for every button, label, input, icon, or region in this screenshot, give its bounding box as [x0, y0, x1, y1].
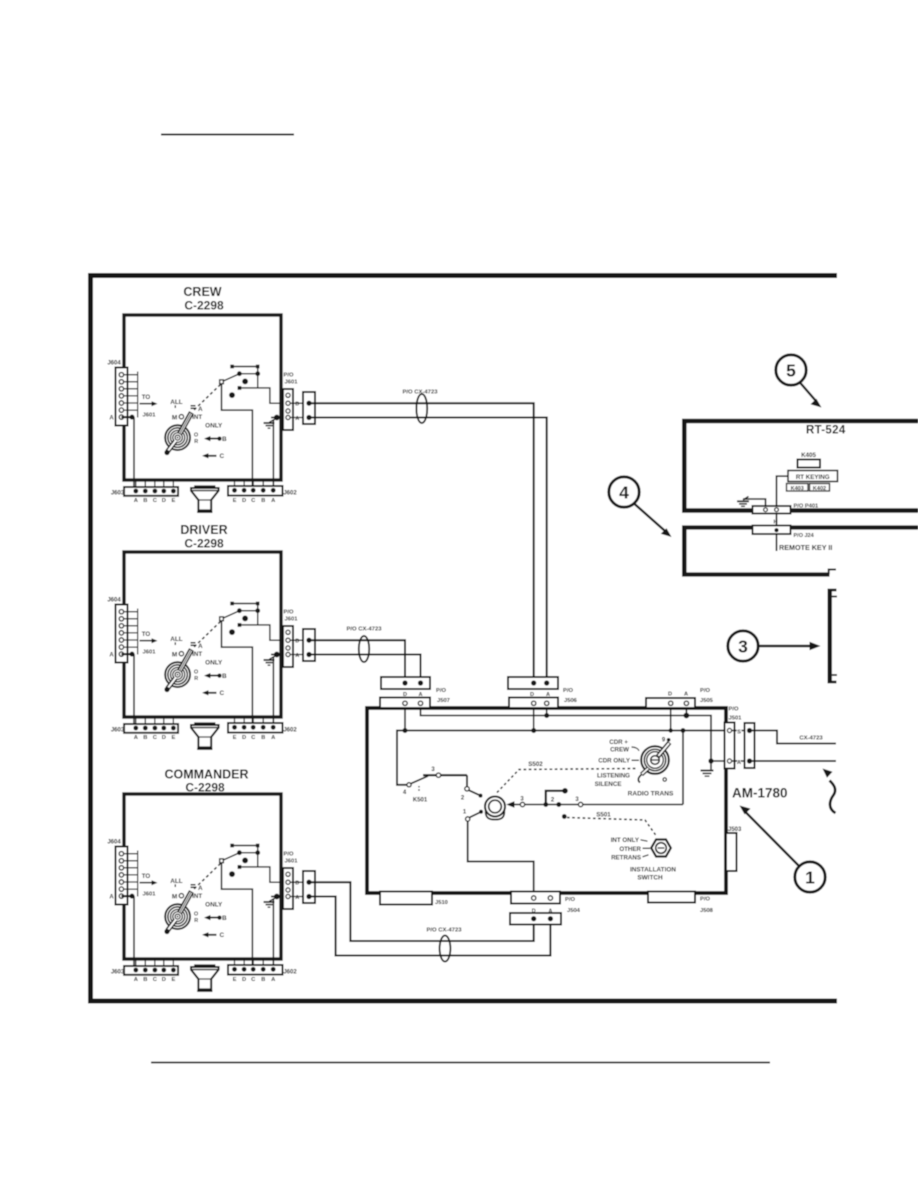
svg-text:REMOTE KEY II: REMOTE KEY II	[779, 543, 832, 552]
control box item 3 bracket	[828, 589, 837, 592]
bottom caption rule	[151, 1062, 770, 1064]
svg-text:RADIO TRANS: RADIO TRANS	[628, 790, 674, 797]
svg-text:K402: K402	[813, 486, 826, 492]
svg-text:1: 1	[805, 868, 815, 888]
svg-text:A: A	[684, 692, 688, 698]
cable plug bar above J506	[508, 677, 558, 689]
svg-text:CX-4723: CX-4723	[799, 736, 823, 742]
ground symbol RT-524	[743, 497, 749, 501]
svg-text:J505: J505	[700, 698, 714, 704]
remote key label wire	[776, 534, 778, 551]
svg-text:3: 3	[738, 637, 748, 657]
wire CX-4723 A lead	[752, 760, 836, 762]
svg-text:K405: K405	[801, 452, 816, 459]
relay contact 2	[466, 775, 468, 786]
svg-text:J507: J507	[437, 698, 450, 704]
installation switch	[651, 840, 671, 857]
relay K501	[407, 783, 411, 787]
svg-text:P/O J24: P/O J24	[794, 533, 815, 539]
figure frame left edge	[88, 273, 93, 1004]
svg-text:LISTENING: LISTENING	[597, 772, 630, 779]
contact 3 right	[578, 802, 582, 806]
remote keying box	[682, 525, 918, 529]
callout 4	[609, 477, 639, 507]
connector J510 tab	[380, 892, 432, 905]
callout 3	[728, 631, 758, 661]
wire with arrow into jack	[512, 804, 683, 806]
svg-text:P/O: P/O	[700, 688, 710, 694]
J506 stubs	[533, 708, 535, 731]
wire crew J601-A to J506	[309, 418, 547, 684]
rotary switch RADIO TRANS	[641, 746, 669, 774]
svg-text:CDR +: CDR +	[609, 739, 628, 746]
wire crew J601-D to J506	[309, 403, 534, 683]
switch S501 dashed	[562, 814, 567, 819]
connector J507 tab	[380, 698, 430, 709]
svg-text:RETRANS: RETRANS	[611, 854, 641, 861]
svg-text:RT KEYING: RT KEYING	[796, 474, 830, 481]
svg-text:K501: K501	[413, 798, 428, 804]
svg-text:P/O: P/O	[729, 707, 739, 713]
connector J24	[753, 526, 791, 535]
relay contact 1	[466, 817, 470, 821]
svg-text:CDR ONLY: CDR ONLY	[598, 758, 631, 765]
cable plug bar below J504	[510, 913, 561, 925]
wire commander J601-D to J504	[309, 882, 534, 941]
connector J504 tab	[511, 892, 560, 904]
svg-text:5: 5	[786, 361, 796, 381]
AM-1780 amplifier box	[367, 708, 726, 893]
svg-text:J506: J506	[564, 698, 578, 704]
svg-text:P/O: P/O	[565, 897, 575, 903]
heading underline	[161, 134, 294, 136]
control box DRIVER C-2298	[107, 552, 315, 749]
J505 stubs	[670, 708, 672, 731]
callout 1	[795, 862, 825, 892]
A bus wire inside AM-1780	[421, 708, 725, 761]
svg-text:P/O: P/O	[700, 897, 710, 903]
connector P401	[753, 506, 791, 514]
svg-text:SILENCE: SILENCE	[595, 781, 622, 788]
callout 5	[776, 355, 806, 385]
svg-text:P/O: P/O	[563, 688, 573, 694]
switch S502 dashed	[497, 769, 636, 793]
control box CREW C-2298	[107, 315, 315, 512]
cable plug bar right of J501	[732, 730, 749, 732]
svg-text:P/O CX-4723: P/O CX-4723	[346, 627, 382, 633]
svg-text:C-2298: C-2298	[184, 537, 224, 551]
wire break squiggle	[830, 781, 836, 814]
svg-text:J501: J501	[729, 716, 743, 722]
connector J508 tab	[648, 892, 695, 903]
figure frame top edge	[88, 273, 837, 278]
control box COMMANDER C-2298	[107, 794, 315, 991]
connector J505 tab	[646, 698, 695, 708]
connector J506 tab	[509, 698, 558, 709]
svg-text:J508: J508	[700, 908, 714, 914]
svg-text:S501: S501	[596, 812, 611, 819]
svg-text:INT ONLY: INT ONLY	[611, 837, 640, 844]
wire CX-4723 S lead	[752, 731, 836, 744]
svg-text:4: 4	[619, 483, 629, 503]
svg-text:J510: J510	[435, 900, 448, 906]
switch step contact 2	[543, 802, 548, 807]
wire up to D bus	[682, 731, 684, 805]
wire driver J601-A to J507	[309, 655, 421, 684]
svg-text:K403: K403	[791, 486, 804, 492]
svg-text:S: S	[737, 729, 741, 735]
svg-text:DRIVER: DRIVER	[180, 523, 227, 537]
svg-text:C-2298: C-2298	[184, 299, 224, 313]
J507-D stub	[404, 708, 406, 731]
svg-text:SWITCH: SWITCH	[637, 875, 663, 882]
wire driver J601-D to J507	[309, 640, 405, 683]
svg-text:RT-524: RT-524	[806, 425, 846, 437]
RT KEYING relay box	[788, 471, 838, 482]
RT-524 receiver-transmitter box	[682, 419, 918, 424]
figure frame bottom edge	[88, 999, 837, 1004]
svg-text:OTHER: OTHER	[619, 846, 641, 853]
svg-text:CREW: CREW	[183, 285, 221, 299]
svg-text:INSTALLATION: INSTALLATION	[630, 866, 676, 873]
ground wire in RT-524	[743, 499, 766, 507]
D bus wire inside AM-1780	[397, 731, 725, 786]
wire commander J601-A to J504	[309, 897, 550, 956]
svg-text:COMMANDER: COMMANDER	[164, 768, 248, 782]
svg-text:CREW: CREW	[610, 747, 629, 754]
svg-text:AM-1780: AM-1780	[732, 786, 788, 801]
wire contact1 to J504	[468, 821, 534, 891]
svg-text:D: D	[668, 692, 672, 698]
jack grommet	[485, 797, 505, 817]
svg-text:P/O: P/O	[436, 688, 446, 694]
relays K403 K402	[787, 484, 809, 492]
wire keying to P401	[777, 476, 789, 507]
svg-text:J504: J504	[567, 908, 581, 914]
svg-text:S502: S502	[528, 761, 543, 768]
svg-text:P/O CX-4723: P/O CX-4723	[426, 928, 462, 934]
svg-text:P/O P401: P/O P401	[794, 504, 819, 510]
ground in AM-1780	[708, 758, 713, 763]
cable plug bar above J507	[381, 677, 430, 689]
